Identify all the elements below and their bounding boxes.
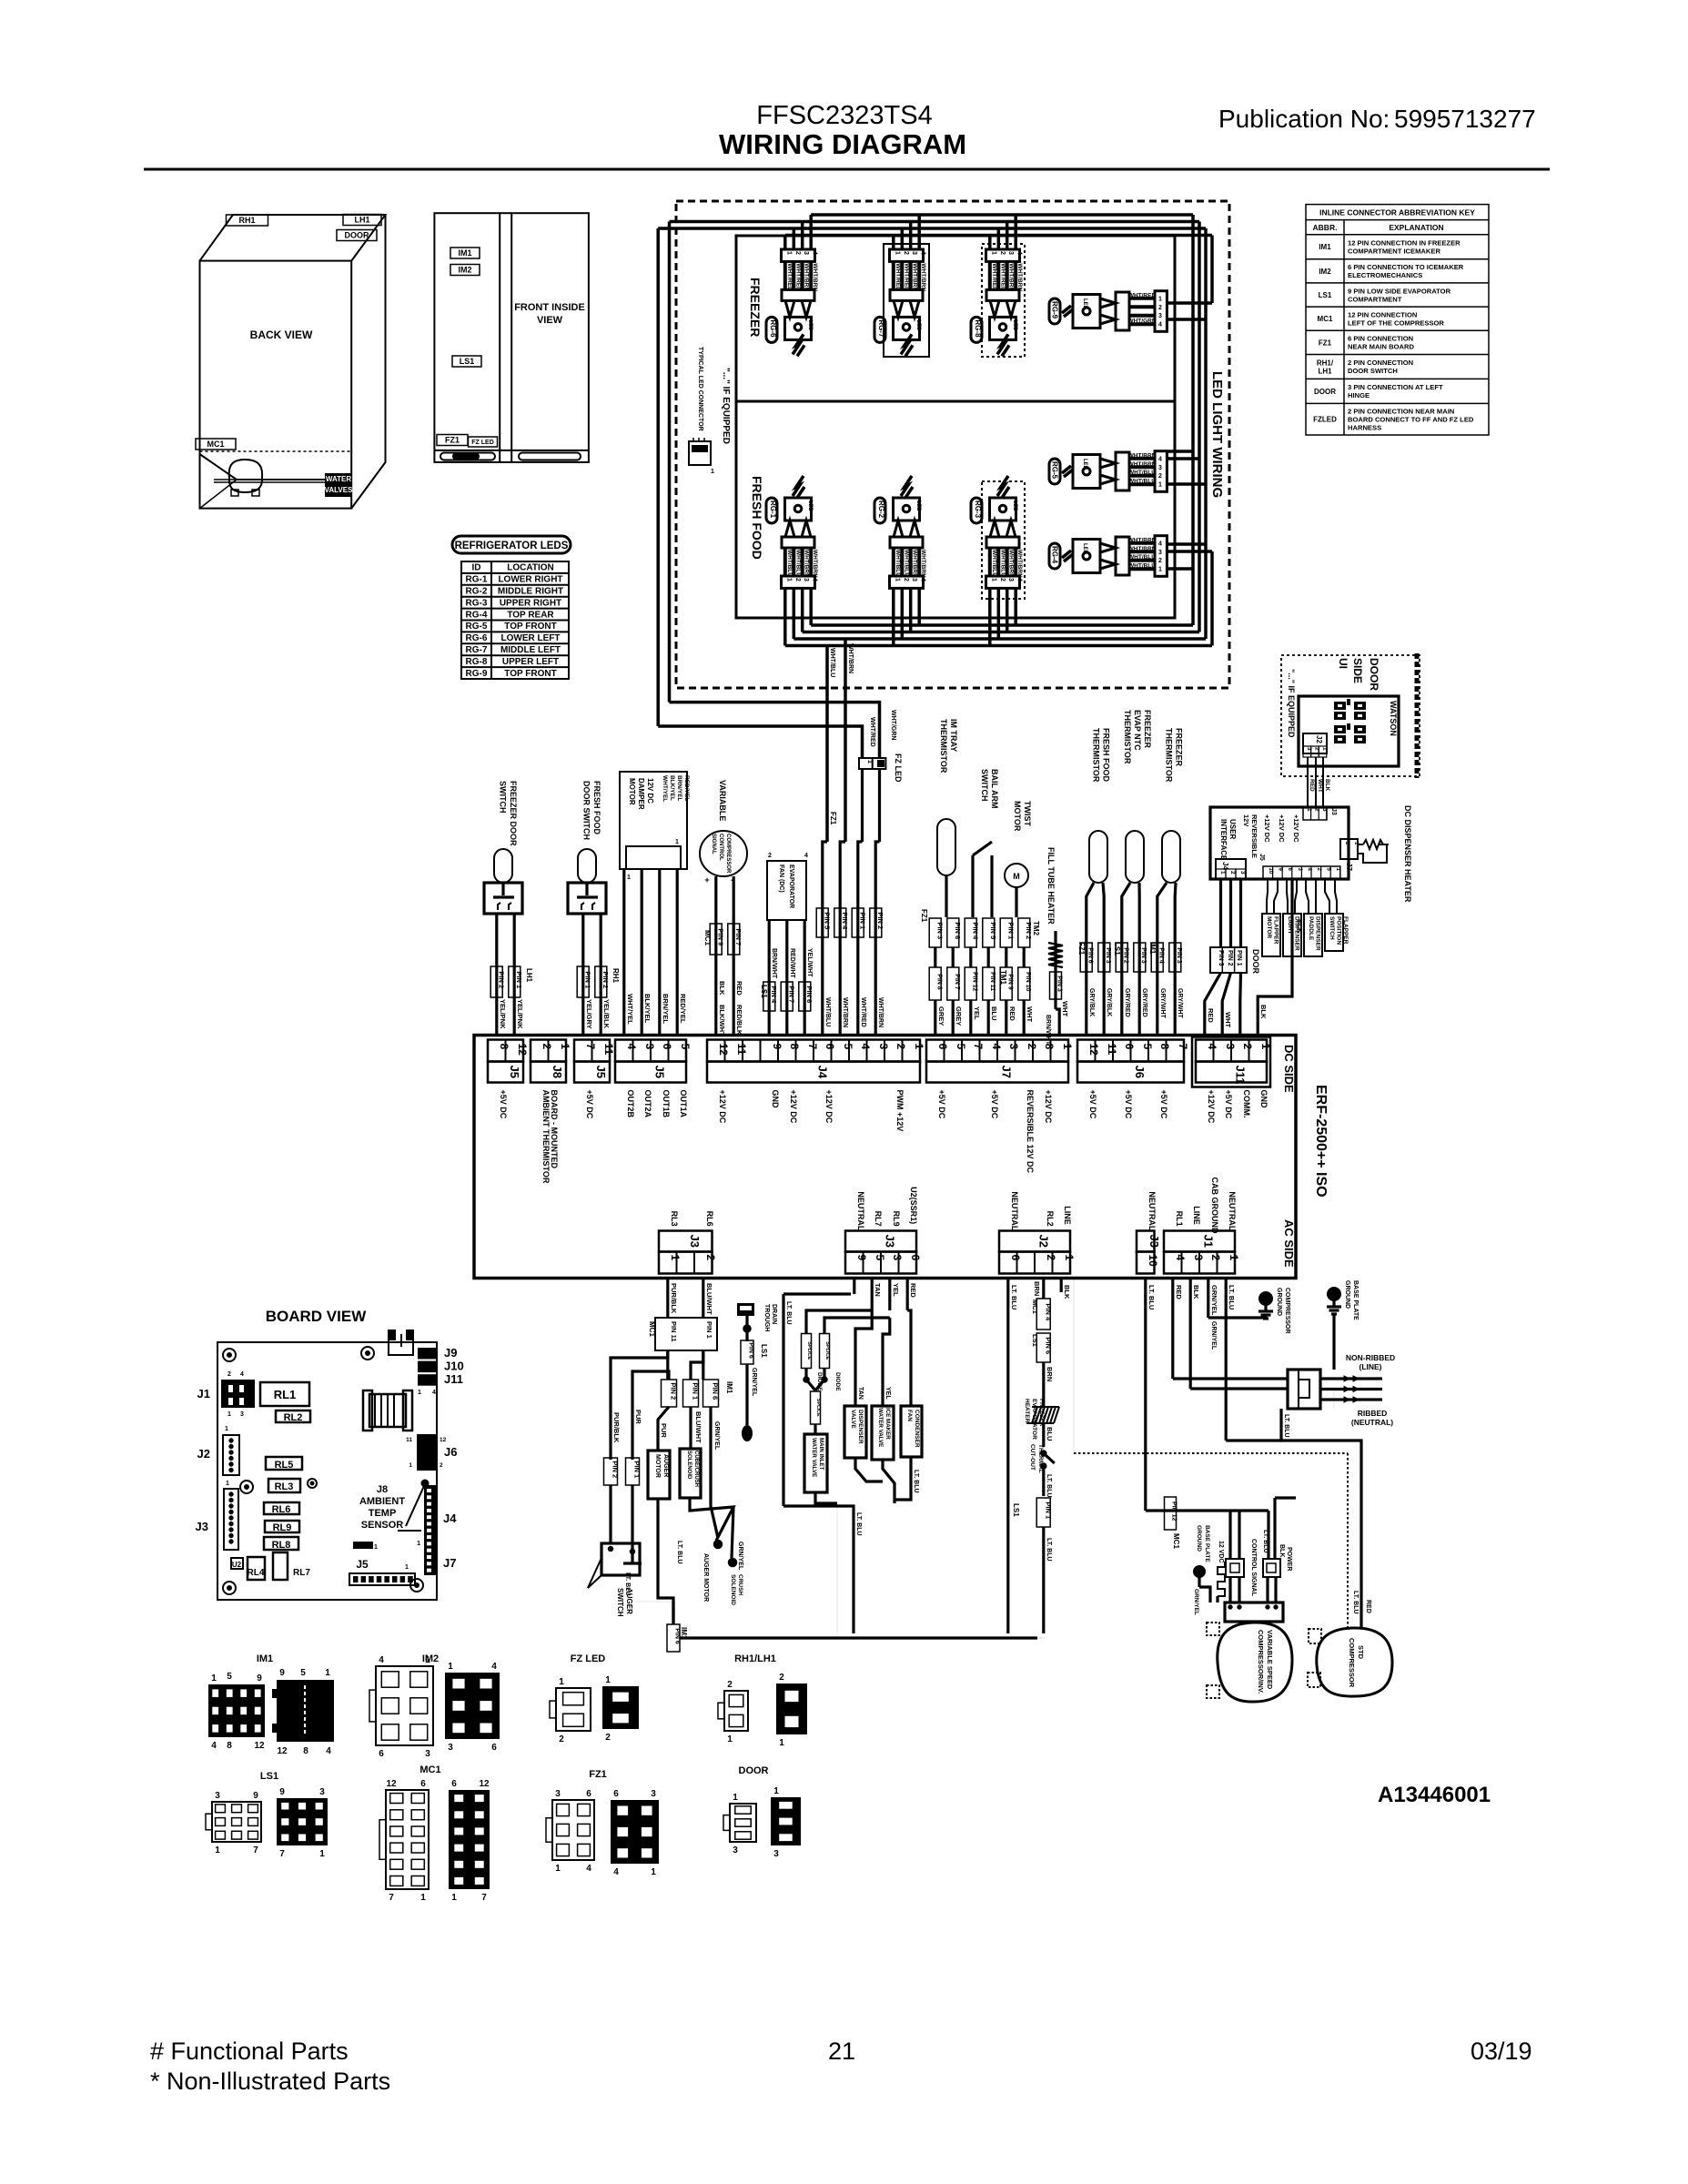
svg-text:WHT/RED: WHT/RED <box>869 717 875 747</box>
svg-text:6: 6 <box>1009 1255 1022 1261</box>
svg-text:IM1: IM1 <box>1319 243 1331 251</box>
svg-text:RH1: RH1 <box>238 216 255 225</box>
svg-text:LOWER RIGHT: LOWER RIGHT <box>498 575 562 585</box>
svg-text:J9: J9 <box>444 1346 457 1360</box>
svg-text:RL6: RL6 <box>272 1504 291 1515</box>
svg-text:DC SIDE: DC SIDE <box>1282 1045 1296 1093</box>
svg-text:PIN 5: PIN 5 <box>989 922 997 939</box>
svg-text:PIN 1: PIN 1 <box>705 1321 713 1339</box>
svg-text:UPPER LEFT: UPPER LEFT <box>502 657 559 667</box>
svg-text:+12V DC: +12V DC <box>1292 814 1300 843</box>
svg-text:1: 1 <box>417 1541 420 1547</box>
svg-text:AUGER MOTOR: AUGER MOTOR <box>702 1553 709 1602</box>
svg-text:LT. BLU: LT. BLU <box>1147 1285 1156 1309</box>
svg-text:8: 8 <box>1158 1044 1171 1050</box>
svg-text:4: 4 <box>240 1371 244 1378</box>
svg-text:WHT/BRN: WHT/BRN <box>912 263 918 291</box>
svg-text:+5V DC: +5V DC <box>1088 1090 1097 1119</box>
svg-text:BLK: BLK <box>1324 779 1330 792</box>
svg-text:WATER VALVE: WATER VALVE <box>877 1408 884 1447</box>
svg-text:BLK/YEL: BLK/YEL <box>643 994 652 1024</box>
svg-text:6: 6 <box>661 1044 673 1050</box>
svg-text:MC1: MC1 <box>648 1321 656 1337</box>
svg-text:PIN 3: PIN 3 <box>1105 947 1111 964</box>
svg-text:COMPRESSOR/INV.: COMPRESSOR/INV. <box>1257 1630 1265 1694</box>
svg-text:COMPRESSOR: COMPRESSOR <box>1348 1638 1356 1688</box>
svg-text:WHT/BLU: WHT/BLU <box>794 550 801 577</box>
svg-text:RG-5: RG-5 <box>1051 461 1059 480</box>
svg-text:HARNESS: HARNESS <box>1348 424 1381 432</box>
svg-text:SOLENOID: SOLENOID <box>686 1451 692 1480</box>
svg-text:IM2: IM2 <box>1319 268 1331 276</box>
svg-text:2: 2 <box>227 1371 231 1378</box>
svg-text:RED: RED <box>1309 779 1315 792</box>
svg-text:WHT/BRN: WHT/BRN <box>912 550 918 578</box>
svg-text:J5: J5 <box>653 1066 667 1078</box>
svg-text:GRY/WHT: GRY/WHT <box>1159 988 1166 1019</box>
svg-text:3: 3 <box>240 1411 244 1418</box>
svg-text:5: 5 <box>227 1672 232 1682</box>
svg-text:BRN: BRN <box>1033 1281 1041 1296</box>
svg-text:WHT/BLU: WHT/BLU <box>1128 554 1156 561</box>
svg-text:CONDENSER: CONDENSER <box>914 1410 920 1448</box>
svg-text:SPLICE: SPLICE <box>815 1399 821 1417</box>
svg-text:RL3: RL3 <box>670 1211 679 1227</box>
svg-text:5: 5 <box>1141 1044 1154 1050</box>
svg-text:MC1: MC1 <box>1031 1299 1039 1314</box>
svg-text:1: 1 <box>669 1255 682 1261</box>
svg-text:RG-5: RG-5 <box>466 622 488 632</box>
svg-text:WATER: WATER <box>326 475 352 483</box>
svg-text:1: 1 <box>785 578 792 581</box>
svg-text:CAB GROUND: CAB GROUND <box>1210 1178 1219 1234</box>
svg-text:WHT/BLU: WHT/BLU <box>895 550 901 577</box>
svg-text:Publication No:: Publication No: <box>1218 105 1390 133</box>
svg-text:YEL: YEL <box>892 1283 900 1297</box>
svg-text:4: 4 <box>990 1044 1003 1050</box>
svg-text:J11: J11 <box>444 1372 463 1386</box>
svg-text:1: 1 <box>418 1390 421 1396</box>
svg-text:THERMISTOR: THERMISTOR <box>1092 728 1101 783</box>
svg-text:FZ LED: FZ LED <box>571 1653 606 1664</box>
svg-text:LT. BLU: LT. BLU <box>1046 1538 1052 1562</box>
svg-text:GRY/RED: GRY/RED <box>1124 988 1130 1017</box>
svg-text:3: 3 <box>891 1255 904 1261</box>
svg-text:4: 4 <box>859 1044 872 1050</box>
svg-text:PIN 6: PIN 6 <box>1087 947 1093 964</box>
svg-text:7: 7 <box>806 1044 819 1050</box>
svg-text:WHT/YEL: WHT/YEL <box>626 994 634 1025</box>
svg-text:EVAPORATOR: EVAPORATOR <box>788 864 794 908</box>
svg-text:PIN 5: PIN 5 <box>824 912 832 929</box>
svg-text:GRY/RED: GRY/RED <box>1141 988 1147 1017</box>
svg-text:FZ1: FZ1 <box>829 812 837 825</box>
svg-text:WHT/BLU: WHT/BLU <box>824 997 831 1026</box>
svg-text:LED: LED <box>915 319 921 331</box>
svg-text:11: 11 <box>602 1044 615 1056</box>
svg-text:4: 4 <box>613 1867 619 1877</box>
svg-text:WHT/BRN: WHT/BRN <box>1016 550 1023 578</box>
svg-text:12 PIN CONNECTION IN FREEZER: 12 PIN CONNECTION IN FREEZER <box>1348 239 1461 248</box>
svg-text:3: 3 <box>1007 1044 1020 1050</box>
svg-text:WHT/BLU: WHT/BLU <box>786 550 793 577</box>
svg-text:2: 2 <box>794 251 801 255</box>
svg-text:USER: USER <box>1228 819 1237 839</box>
svg-text:RED/WHT: RED/WHT <box>789 948 795 978</box>
svg-text:7: 7 <box>389 1893 394 1903</box>
svg-text:CUT-OUT: CUT-OUT <box>1029 1444 1036 1471</box>
svg-text:MAIN INLET: MAIN INLET <box>818 1438 824 1471</box>
svg-text:FFSC2323TS4: FFSC2323TS4 <box>756 101 932 130</box>
svg-text:RL8: RL8 <box>272 1540 291 1551</box>
svg-text:PIN 11: PIN 11 <box>989 972 996 991</box>
svg-text:J4: J4 <box>443 1512 457 1525</box>
svg-text:SPLICE: SPLICE <box>806 1341 812 1360</box>
svg-text:RL9: RL9 <box>892 1211 901 1227</box>
svg-text:9: 9 <box>771 1044 783 1050</box>
svg-text:TWIST: TWIST <box>1023 801 1032 826</box>
svg-text:3: 3 <box>448 1743 453 1753</box>
svg-text:+12V DC: +12V DC <box>1207 1090 1216 1124</box>
svg-text:BLK: BLK <box>1279 1544 1285 1557</box>
svg-text:J2: J2 <box>197 1447 210 1461</box>
svg-text:J5: J5 <box>508 1066 521 1078</box>
svg-text:PIN 10: PIN 10 <box>1025 972 1031 992</box>
svg-text:COMPARTMENT: COMPARTMENT <box>1348 295 1402 303</box>
svg-text:4: 4 <box>1016 578 1023 581</box>
svg-text:J8: J8 <box>377 1484 388 1495</box>
svg-text:2: 2 <box>903 578 909 581</box>
svg-text:J8: J8 <box>551 1066 564 1078</box>
svg-text:SIGNAL: SIGNAL <box>711 834 716 854</box>
svg-text:J2: J2 <box>1037 1235 1051 1248</box>
svg-text:WHT/BRN: WHT/BRN <box>804 263 810 291</box>
svg-text:1: 1 <box>1306 808 1312 812</box>
svg-text:RED: RED <box>1365 1600 1371 1613</box>
svg-text:6: 6 <box>451 1779 457 1789</box>
svg-text:PUR/BLK: PUR/BLK <box>612 1412 621 1443</box>
svg-text:BLK: BLK <box>1063 1285 1071 1299</box>
svg-text:REFRIGERATOR LEDS: REFRIGERATOR LEDS <box>455 541 569 551</box>
svg-text:BASE PLATE: BASE PLATE <box>1204 1525 1210 1562</box>
svg-text:3: 3 <box>1224 1044 1237 1050</box>
svg-text:YEL/GRY: YEL/GRY <box>585 999 593 1029</box>
svg-text:PIN 1: PIN 1 <box>1236 950 1242 966</box>
svg-text:J1: J1 <box>1202 1235 1216 1248</box>
svg-text:2: 2 <box>1158 473 1162 480</box>
svg-text:YEL/WHT: YEL/WHT <box>806 948 813 977</box>
svg-text:5: 5 <box>955 1044 967 1050</box>
svg-text:RG-7: RG-7 <box>877 319 885 338</box>
svg-text:J6: J6 <box>444 1445 457 1459</box>
svg-text:TOP FRONT: TOP FRONT <box>504 669 556 679</box>
svg-text:9: 9 <box>253 1791 258 1801</box>
svg-text:EXPLANATION: EXPLANATION <box>1389 223 1443 232</box>
svg-text:4: 4 <box>586 1864 591 1874</box>
svg-text:WHT/BLU: WHT/BLU <box>829 648 835 677</box>
svg-text:A13446001: A13446001 <box>1378 1783 1491 1807</box>
svg-text:PIN 1: PIN 1 <box>515 971 523 988</box>
svg-text:YEL/PNK: YEL/PNK <box>499 999 507 1029</box>
svg-text:MC1: MC1 <box>1318 315 1333 323</box>
svg-text:4: 4 <box>211 1741 217 1751</box>
svg-text:12: 12 <box>440 1437 447 1443</box>
svg-text:DISPENSER: DISPENSER <box>1315 916 1321 951</box>
svg-text:NEAR MAIN BOARD: NEAR MAIN BOARD <box>1348 343 1414 351</box>
svg-text:RL7: RL7 <box>293 1568 310 1578</box>
svg-text:YEL/PNK: YEL/PNK <box>516 999 524 1029</box>
svg-text:BOARD VIEW: BOARD VIEW <box>266 1308 367 1325</box>
svg-text:FILL TUBE HEATER: FILL TUBE HEATER <box>1046 847 1056 925</box>
svg-text:2: 2 <box>559 1734 564 1744</box>
svg-text:2: 2 <box>779 1673 784 1683</box>
svg-text:IM TRAY: IM TRAY <box>949 719 958 752</box>
svg-text:TM2: TM2 <box>1032 921 1040 936</box>
svg-text:WHT/RED: WHT/RED <box>860 997 866 1027</box>
svg-text:WHT/RED: WHT/RED <box>991 263 997 291</box>
svg-text:7: 7 <box>584 1044 597 1050</box>
svg-text:DAMPER: DAMPER <box>637 778 645 810</box>
svg-text:8: 8 <box>303 1746 308 1756</box>
svg-text:LS1: LS1 <box>760 985 768 998</box>
svg-text:5: 5 <box>842 1044 854 1050</box>
svg-text:WHT: WHT <box>1061 1001 1069 1016</box>
svg-text:WHT/BLU: WHT/BLU <box>1128 563 1156 570</box>
svg-text:DOOR: DOOR <box>1314 388 1336 396</box>
svg-text:1: 1 <box>211 1673 217 1683</box>
svg-text:PIN 4: PIN 4 <box>1157 947 1164 964</box>
svg-text:LS1: LS1 <box>1012 1503 1020 1517</box>
svg-text:MC1: MC1 <box>1172 1533 1180 1549</box>
svg-text:RED: RED <box>735 981 743 996</box>
svg-text:RED: RED <box>1175 1285 1183 1299</box>
svg-text:GRN/YEL: GRN/YEL <box>713 1421 720 1451</box>
svg-text:WHT/BRN: WHT/BRN <box>1128 546 1157 552</box>
svg-text:WHT: WHT <box>1026 1006 1034 1022</box>
svg-text:DRAIN: DRAIN <box>771 1304 777 1324</box>
svg-text:6: 6 <box>420 1779 426 1789</box>
svg-text:9 PIN LOW SIDE EVAPORATOR: 9 PIN LOW SIDE EVAPORATOR <box>1348 287 1451 295</box>
svg-text:DIODE: DIODE <box>834 1372 841 1391</box>
svg-text:PIN 4: PIN 4 <box>770 986 778 1004</box>
svg-text:# Functional Parts: # Functional Parts <box>150 2037 349 2065</box>
svg-text:GRN/YEL: GRN/YEL <box>737 1542 743 1571</box>
svg-text:1: 1 <box>227 1411 231 1418</box>
svg-text:ABBR.: ABBR. <box>1313 223 1338 232</box>
svg-text:3: 3 <box>803 578 809 581</box>
svg-text:+5V DC: +5V DC <box>1224 1090 1233 1119</box>
svg-text:1: 1 <box>409 1462 412 1469</box>
svg-text:BLU: BLU <box>990 1006 998 1020</box>
svg-text:WHT/RED: WHT/RED <box>903 263 909 291</box>
svg-text:RH1/: RH1/ <box>1317 359 1334 367</box>
svg-text:2: 2 <box>1209 1255 1222 1261</box>
svg-text:NEUTRAL: NEUTRAL <box>1228 1191 1237 1230</box>
svg-text:PIN 1: PIN 1 <box>692 1382 700 1400</box>
svg-text:1: 1 <box>225 1426 228 1432</box>
svg-text:4: 4 <box>1158 541 1162 547</box>
svg-text:REVERSIBLE: REVERSIBLE <box>1250 814 1258 858</box>
svg-text:MOTOR: MOTOR <box>654 1454 661 1478</box>
svg-text:BRN/WHT: BRN/WHT <box>1045 1015 1051 1046</box>
svg-text:12V DC: 12V DC <box>646 778 654 804</box>
svg-text:9: 9 <box>855 1255 868 1261</box>
svg-text:GRN/YEL: GRN/YEL <box>1193 1589 1199 1615</box>
svg-text:J11: J11 <box>1234 1066 1248 1085</box>
svg-text:CRUSH: CRUSH <box>737 1574 743 1595</box>
svg-text:RG-8: RG-8 <box>466 657 488 667</box>
svg-text:RG-8: RG-8 <box>974 319 982 338</box>
svg-text:+12V DC: +12V DC <box>824 1090 834 1124</box>
svg-text:1: 1 <box>675 839 679 845</box>
svg-text:9: 9 <box>279 1668 285 1678</box>
svg-text:2: 2 <box>1158 558 1162 564</box>
svg-text:1: 1 <box>1219 871 1226 875</box>
svg-text:NON-RIBBED: NON-RIBBED <box>1346 1353 1395 1362</box>
svg-text:PIN 1: PIN 1 <box>1007 922 1016 939</box>
svg-text:GRY/BLK: GRY/BLK <box>1106 988 1112 1016</box>
svg-text:PIN 12: PIN 12 <box>1171 1501 1178 1522</box>
svg-text:PUR: PUR <box>660 1423 668 1438</box>
svg-text:5: 5 <box>679 1044 692 1050</box>
svg-text:WHT/GRN: WHT/GRN <box>1127 318 1156 325</box>
svg-text:PIN 6: PIN 6 <box>805 986 814 1003</box>
svg-text:3: 3 <box>425 1749 430 1759</box>
svg-text:TOP REAR: TOP REAR <box>507 610 554 620</box>
svg-text:FZ1: FZ1 <box>1319 339 1332 347</box>
svg-text:12: 12 <box>717 1044 730 1057</box>
svg-text:J5: J5 <box>356 1558 369 1571</box>
svg-text:12: 12 <box>254 1741 265 1751</box>
svg-text:DOOR: DOOR <box>1368 658 1380 691</box>
svg-text:CONTROL SIGNAL: CONTROL SIGNAL <box>1250 1539 1257 1597</box>
svg-text:RED/BLK: RED/BLK <box>735 1005 743 1036</box>
svg-text:SIDE: SIDE <box>1351 658 1364 683</box>
svg-text:PIN 9: PIN 9 <box>717 928 725 945</box>
svg-text:BACK VIEW: BACK VIEW <box>250 329 313 341</box>
svg-text:COMPRESSOR: COMPRESSOR <box>1284 1288 1290 1334</box>
svg-text:LS1: LS1 <box>760 1344 768 1358</box>
svg-text:TOP FRONT: TOP FRONT <box>504 622 556 632</box>
svg-text:1: 1 <box>651 1867 656 1877</box>
svg-text:MOTOR: MOTOR <box>628 778 636 805</box>
svg-text:LT. BLU: LT. BLU <box>1046 1474 1052 1498</box>
svg-text:STD: STD <box>1357 1645 1365 1660</box>
svg-text:LOCATION: LOCATION <box>507 563 553 573</box>
svg-text:BLU/WHT: BLU/WHT <box>694 1411 702 1443</box>
svg-text:MIDDLE RIGHT: MIDDLE RIGHT <box>498 587 563 597</box>
svg-text:BOARD CONNECT TO FF AND FZ LED: BOARD CONNECT TO FF AND FZ LED <box>1348 416 1474 424</box>
svg-text:COMPARTMENT ICEMAKER: COMPARTMENT ICEMAKER <box>1348 248 1440 256</box>
svg-text:FAN: FAN <box>906 1410 913 1421</box>
svg-text:LS1: LS1 <box>260 1771 278 1782</box>
svg-text:PIN 6: PIN 6 <box>1045 1337 1053 1354</box>
svg-text:2: 2 <box>727 1680 733 1690</box>
svg-text:AUGER: AUGER <box>662 1454 669 1477</box>
svg-text:10: 10 <box>1147 1255 1159 1268</box>
svg-text:AMBIENT THERMISTOR: AMBIENT THERMISTOR <box>541 1090 551 1184</box>
svg-text:4: 4 <box>1206 1044 1218 1050</box>
svg-text:4: 4 <box>920 251 926 255</box>
svg-text:RED: RED <box>1207 1008 1215 1023</box>
svg-text:5995713277: 5995713277 <box>1394 105 1536 133</box>
svg-text:12 VDC: 12 VDC <box>1218 1541 1224 1563</box>
svg-text:6: 6 <box>586 1789 591 1799</box>
svg-text:6 PIN CONNECTION: 6 PIN CONNECTION <box>1348 335 1413 343</box>
svg-text:3: 3 <box>773 1849 779 1859</box>
svg-text:1: 1 <box>1158 482 1162 489</box>
svg-text:7: 7 <box>279 1849 285 1859</box>
svg-text:LED: LED <box>807 500 813 512</box>
svg-text:J2: J2 <box>1315 735 1323 743</box>
svg-text:BLK: BLK <box>1192 1285 1200 1299</box>
svg-text:GRN/YEL: GRN/YEL <box>751 1368 757 1397</box>
svg-text:LT. BLU: LT. BLU <box>1262 1530 1269 1553</box>
svg-text:PIN 3: PIN 3 <box>1056 976 1063 992</box>
svg-text:6: 6 <box>824 1044 836 1050</box>
svg-text:PIN 2: PIN 2 <box>612 1461 620 1478</box>
svg-text:PIN 6: PIN 6 <box>712 1382 720 1400</box>
svg-text:RL1: RL1 <box>274 1388 297 1401</box>
svg-text:FRONT INSIDE: FRONT INSIDE <box>514 302 585 313</box>
svg-text:6: 6 <box>491 1743 497 1753</box>
svg-text:6: 6 <box>1123 1044 1136 1050</box>
svg-text:SPLICE: SPLICE <box>824 1341 830 1360</box>
svg-text:1: 1 <box>405 1564 409 1571</box>
svg-text:4: 4 <box>432 1390 436 1396</box>
svg-text:1: 1 <box>555 1864 561 1874</box>
svg-text:VIEW: VIEW <box>537 315 563 326</box>
svg-text:2: 2 <box>1045 1255 1057 1261</box>
svg-text:1: 1 <box>226 1481 229 1487</box>
svg-text:SENSOR: SENSOR <box>361 1520 404 1531</box>
svg-text:3: 3 <box>911 251 917 255</box>
svg-text:J1: J1 <box>197 1387 210 1400</box>
svg-text:PIN 2: PIN 2 <box>876 912 884 929</box>
svg-text:1: 1 <box>894 578 900 581</box>
svg-text:8: 8 <box>788 1044 801 1050</box>
svg-text:SWITCH: SWITCH <box>616 1588 624 1617</box>
svg-text:+5V DC: +5V DC <box>937 1090 946 1119</box>
svg-text:BLK/YEL: BLK/YEL <box>669 775 675 801</box>
svg-text:+12V DC: +12V DC <box>1044 1090 1053 1124</box>
svg-text:2: 2 <box>794 578 801 581</box>
svg-text:6 PIN CONNECTION TO ICEMAKER: 6 PIN CONNECTION TO ICEMAKER <box>1348 263 1464 271</box>
svg-text:3: 3 <box>1007 251 1014 255</box>
svg-text:LT. BLU: LT. BLU <box>624 1572 631 1596</box>
svg-text:IM2: IM2 <box>458 266 471 275</box>
svg-text:GND: GND <box>771 1090 780 1109</box>
svg-text:LED: LED <box>1082 543 1087 555</box>
svg-text:12: 12 <box>386 1779 397 1789</box>
svg-text:FREEZER: FREEZER <box>1038 1399 1045 1427</box>
svg-text:WHT/RED: WHT/RED <box>786 263 793 291</box>
svg-text:IM1: IM1 <box>1148 942 1157 955</box>
svg-text:5: 5 <box>300 1668 306 1678</box>
svg-text:+12V DC: +12V DC <box>718 1090 727 1124</box>
svg-text:* Non-Illustrated Parts: * Non-Illustrated Parts <box>150 2068 390 2095</box>
svg-text:4: 4 <box>812 251 818 255</box>
svg-text:3: 3 <box>1007 578 1014 581</box>
svg-text:IM1: IM1 <box>725 1381 733 1394</box>
svg-text:11: 11 <box>1106 1044 1118 1056</box>
svg-text:12: 12 <box>479 1779 490 1789</box>
svg-text:4: 4 <box>1158 322 1162 329</box>
svg-text:11: 11 <box>735 1044 748 1056</box>
svg-text:03/19: 03/19 <box>1471 2037 1532 2065</box>
svg-text:HINGE: HINGE <box>1348 391 1370 399</box>
svg-text:PIN 11: PIN 11 <box>670 1321 678 1342</box>
